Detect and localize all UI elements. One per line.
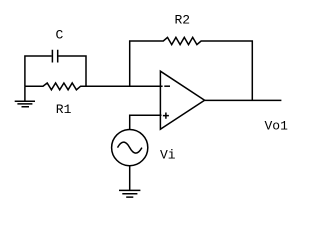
svg-text:R1: R1 [56,102,72,117]
svg-text:R2: R2 [175,12,191,27]
svg-text:Vo1: Vo1 [265,119,289,134]
svg-text:Vi: Vi [160,147,176,162]
svg-text:C: C [56,28,64,43]
